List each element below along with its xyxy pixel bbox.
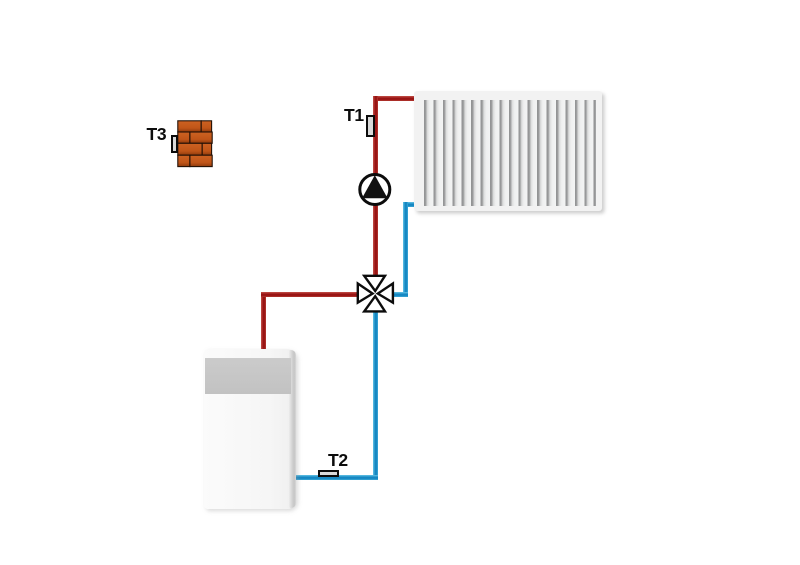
boiler right side strip — [289, 350, 297, 509]
pipe: blue valve right port horizontal — [391, 292, 408, 297]
pipe: blue radiator return horizontal stub — [403, 202, 417, 207]
4-way mixing valve — [352, 270, 398, 316]
brick wall (outdoor) — [177, 120, 213, 168]
sensor T1 — [366, 115, 375, 137]
label T2 — [328, 454, 348, 467]
pipe: red supply vertical through pump to valve — [373, 96, 378, 278]
pipe: blue radiator return vertical down to valve — [403, 202, 408, 297]
sensor T2 — [318, 470, 339, 478]
pipe: blue valve bottom vertical drop — [373, 310, 378, 480]
pump P1 — [356, 171, 394, 209]
label T3 — [147, 128, 167, 141]
sensor T3 — [171, 135, 178, 154]
pipe: red supply horizontal to radiator top — [373, 96, 417, 101]
pipe: blue bottom horizontal to boiler — [296, 475, 378, 480]
radiator — [414, 91, 603, 211]
pipe: red boiler riser vertical — [261, 292, 266, 351]
label T1 — [344, 109, 364, 122]
boiler — [204, 349, 297, 509]
pipe: red horizontal boiler to valve left port — [261, 292, 359, 297]
boiler gray band — [205, 358, 291, 395]
